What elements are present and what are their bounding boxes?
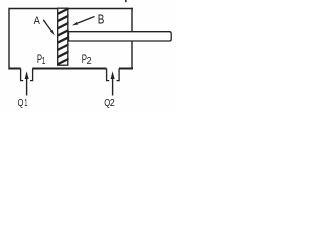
- svg-text:Q: Q: [18, 98, 24, 109]
- piston rod: [69, 32, 172, 41]
- cylinder body top edge: [9, 8, 133, 10]
- cylinder right wall: [131, 8, 133, 70]
- flow arrow Q2 shaft: [112, 76, 114, 96]
- svg-text:A: A: [34, 15, 41, 27]
- cylinder bottom edge right segment: [119, 68, 133, 70]
- svg-text:B: B: [98, 11, 105, 26]
- svg-text:1: 1: [24, 98, 27, 109]
- flow arrow Q1 shaft: [26, 76, 28, 96]
- cylinder left wall: [8, 8, 10, 70]
- flow arrow Q2 head: [111, 71, 115, 79]
- label A arrow shaft: [43, 20, 51, 31]
- label B arrow head: [72, 22, 78, 26]
- flow arrow Q1 head: [25, 71, 29, 79]
- port 1 right wall with flange: [30, 69, 33, 81]
- port 1 left wall with flange: [21, 69, 24, 81]
- cylinder bottom edge middle segment: [32, 68, 106, 70]
- cylinder bottom edge left segment: [9, 68, 21, 70]
- stray tick mark top: [125, 0, 127, 2]
- svg-text:2: 2: [110, 98, 115, 109]
- port 2 left wall with flange: [107, 69, 110, 81]
- svg-text:2: 2: [87, 56, 92, 67]
- label A arrow head: [50, 30, 55, 36]
- piston (hatched): [53, 6, 73, 66]
- svg-text:1: 1: [42, 56, 46, 67]
- label B arrow shaft: [78, 17, 95, 24]
- port 2 right wall with flange: [117, 69, 120, 81]
